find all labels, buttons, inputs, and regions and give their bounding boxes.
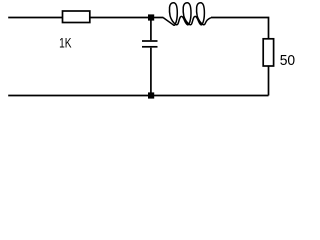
svg-text:1K: 1K: [59, 35, 72, 51]
svg-text:50: 50: [280, 52, 295, 69]
